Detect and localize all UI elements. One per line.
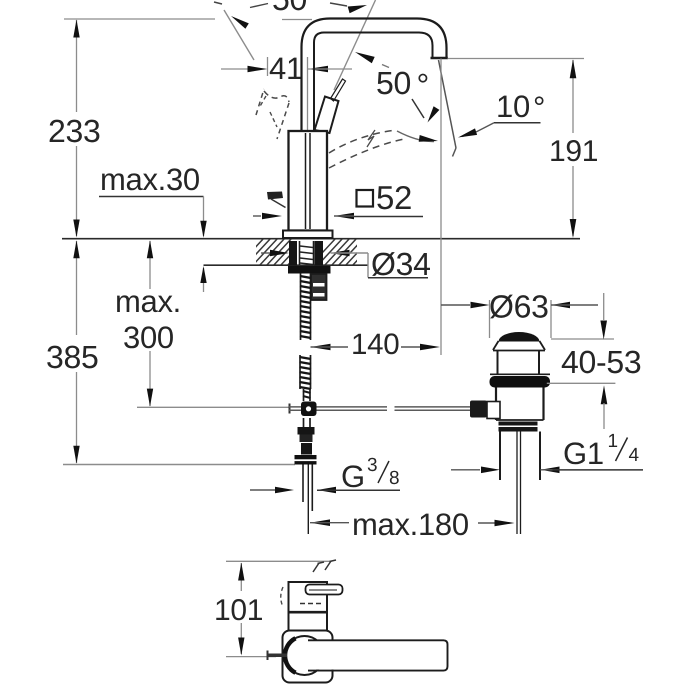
- svg-text:Ø63: Ø63: [489, 289, 549, 325]
- extension line at outlet level (191 ref): [448, 58, 585, 60]
- dimension G1 1/4: [451, 469, 480, 471]
- svg-text:300: 300: [123, 320, 174, 355]
- faucet spout outer profile: [302, 19, 447, 133]
- dimension max.30: [99, 196, 204, 198]
- svg-text:52: 52: [376, 179, 412, 216]
- wire top extension line (233 reference, spout top): [64, 18, 215, 20]
- dimension diam63: [489, 300, 491, 338]
- wire max300 reference line: [137, 406, 289, 408]
- pop-up rod horizontal: [289, 404, 291, 414]
- threaded shank upper: [300, 273, 302, 340]
- base plate: [283, 231, 333, 239]
- handle lever solid: [315, 97, 339, 134]
- deck hatching right: [310, 238, 385, 266]
- supply nub: [267, 654, 287, 658]
- water stream line at 10 deg: [439, 60, 457, 148]
- svg-text:3: 3: [367, 455, 377, 476]
- svg-text:max.180: max.180: [352, 507, 469, 542]
- svg-text:G1: G1: [563, 436, 604, 471]
- supply hose: [302, 465, 304, 503]
- break mark: [367, 130, 375, 147]
- drain neck: [497, 350, 499, 375]
- wire hose-end reference line: [63, 464, 295, 466]
- spout outlet face: [431, 57, 448, 59]
- faucet spout inner profile: [314, 33, 433, 133]
- dimension 191: [572, 60, 574, 133]
- dimension 40-53: [551, 338, 614, 340]
- svg-text:1: 1: [608, 431, 618, 452]
- handle dashed alternate position: [256, 89, 264, 115]
- svg-text:101: 101: [214, 594, 263, 627]
- deck hatching left: [238, 238, 320, 266]
- svg-text:°: °: [417, 67, 430, 103]
- dimension 50 slanted extension line right (to handle tip): [334, 0, 376, 90]
- spout dashed swivel position: [329, 130, 396, 153]
- rod tube: [303, 389, 305, 401]
- counter deck bottom line: [204, 264, 369, 266]
- top view lever bar: [308, 641, 447, 670]
- wire spout axis: [307, 57, 309, 130]
- svg-text:191: 191: [549, 135, 598, 168]
- svg-text:max.30: max.30: [100, 162, 200, 197]
- mounting locknut: [289, 241, 297, 266]
- drain flare: [493, 341, 499, 350]
- drain tail rings: [499, 422, 538, 426]
- dimension 101: [226, 560, 331, 562]
- top view handle bar: [306, 585, 343, 595]
- dimension 41: [267, 57, 269, 76]
- faucet body column: [289, 131, 328, 231]
- top view body circle: [285, 636, 324, 675]
- dimension square52: [253, 215, 261, 217]
- threaded shank lower: [299, 355, 301, 389]
- drain body: [495, 388, 497, 421]
- svg-text:G: G: [341, 459, 365, 494]
- top view base plate: [283, 631, 333, 683]
- svg-text:233: 233: [48, 113, 101, 149]
- retaining clip on body left: [267, 192, 283, 200]
- svg-text:10: 10: [496, 89, 530, 124]
- rod ball joint: [301, 402, 317, 417]
- svg-text:50: 50: [376, 65, 411, 101]
- rod guide block: [311, 274, 327, 300]
- label max.180 with leaders: [310, 519, 330, 526]
- dimension G3/8: [250, 489, 275, 491]
- svg-text:Ø34: Ø34: [371, 246, 431, 282]
- top view spout nose: [289, 582, 328, 612]
- top view swivel dashes: [313, 563, 319, 572]
- dimension 385 vertical line: [76, 241, 78, 335]
- label square 52: [357, 190, 374, 207]
- svg-text:41: 41: [269, 51, 303, 86]
- swivel arc 50 deg: [397, 131, 434, 142]
- svg-text:140: 140: [351, 328, 399, 361]
- svg-text:385: 385: [46, 339, 99, 375]
- svg-text:°: °: [533, 90, 545, 125]
- dimension 140: [311, 344, 331, 351]
- handle tip: [331, 79, 346, 101]
- dimension diam34: [261, 252, 270, 254]
- wire vertical extension from outlet (140 ref): [440, 59, 442, 356]
- drain flange o-ring: [490, 373, 550, 375]
- top view body mid: [289, 611, 328, 614]
- drain tailpipe: [499, 432, 501, 481]
- dimension max.300 vertical line: [149, 241, 151, 289]
- thick arc on circle: [285, 638, 296, 673]
- G3/8 connector stack: [298, 427, 315, 435]
- washer: [288, 266, 331, 274]
- svg-text:50: 50: [272, 0, 307, 17]
- drain pop-up dome cap: [499, 332, 540, 342]
- svg-text:4: 4: [629, 445, 640, 466]
- dimension 233 vertical line: [76, 20, 78, 112]
- counter deck top line: [62, 238, 580, 240]
- svg-text:40-53: 40-53: [561, 344, 641, 380]
- dimension 50 slanted extension line left: [224, 10, 254, 60]
- svg-text:8: 8: [389, 468, 399, 489]
- svg-text:max.: max.: [115, 284, 181, 319]
- rod knob at drain: [470, 401, 487, 418]
